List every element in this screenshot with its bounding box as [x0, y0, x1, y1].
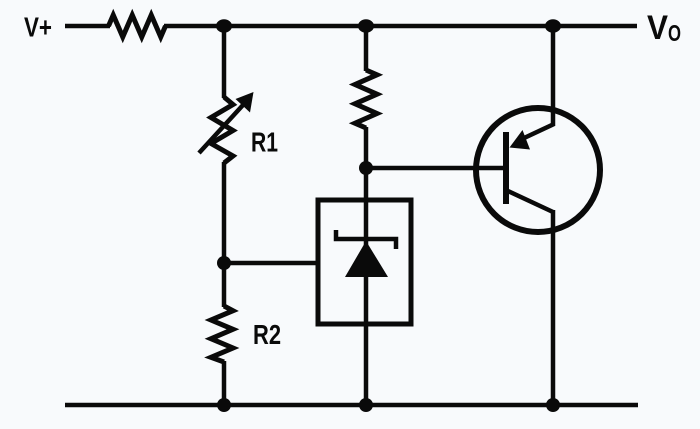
junction top-right [545, 19, 561, 33]
junction bottom-left [217, 398, 231, 412]
junction bottom-right [546, 398, 560, 412]
zener diode D1 anode triangle [345, 241, 388, 277]
junction bottom-middle [359, 398, 373, 412]
transistor Q1 base bar [503, 132, 509, 204]
transistor Q1 body [476, 108, 600, 232]
svg-text:R2: R2 [253, 319, 281, 350]
wire top rail left segment [65, 24, 110, 29]
wire left branch upper [222, 26, 227, 98]
junction divider node [217, 256, 231, 270]
wire reference to regulator [224, 261, 318, 266]
resistor R1 (variable) [211, 97, 233, 163]
shunt regulator U1 box [318, 200, 411, 324]
svg-text:O: O [668, 20, 681, 46]
wire collector lead [551, 210, 556, 405]
wire base lead [366, 166, 503, 171]
junction top-left [216, 19, 232, 33]
zener diode D1 cathode bar [336, 230, 396, 249]
wire bottom rail [65, 403, 638, 408]
svg-text:R1: R1 [251, 127, 278, 158]
wire middle branch upper [364, 26, 369, 71]
junction top-middle [358, 19, 374, 33]
transistor Q1 emitter diagonal [522, 124, 554, 139]
wire left branch lower [222, 263, 227, 307]
svg-text:V+: V+ [24, 12, 52, 43]
wire left branch bottom [222, 361, 227, 405]
resistor R2 [211, 306, 233, 362]
svg-text:V: V [647, 9, 668, 47]
transistor Q1 collector diagonal [508, 191, 553, 212]
junction base node [359, 161, 373, 175]
resistor R3 (series, top rail) [109, 15, 166, 37]
wire left branch middle [222, 162, 227, 263]
wire middle branch through regulator [364, 127, 369, 405]
wire emitter lead [551, 26, 556, 126]
resistor R4 (bias, middle branch) [355, 70, 377, 128]
transistor Q1 emitter arrow [510, 130, 531, 150]
wire top rail right segment [164, 24, 637, 29]
R1 wiper arrow [199, 105, 243, 153]
